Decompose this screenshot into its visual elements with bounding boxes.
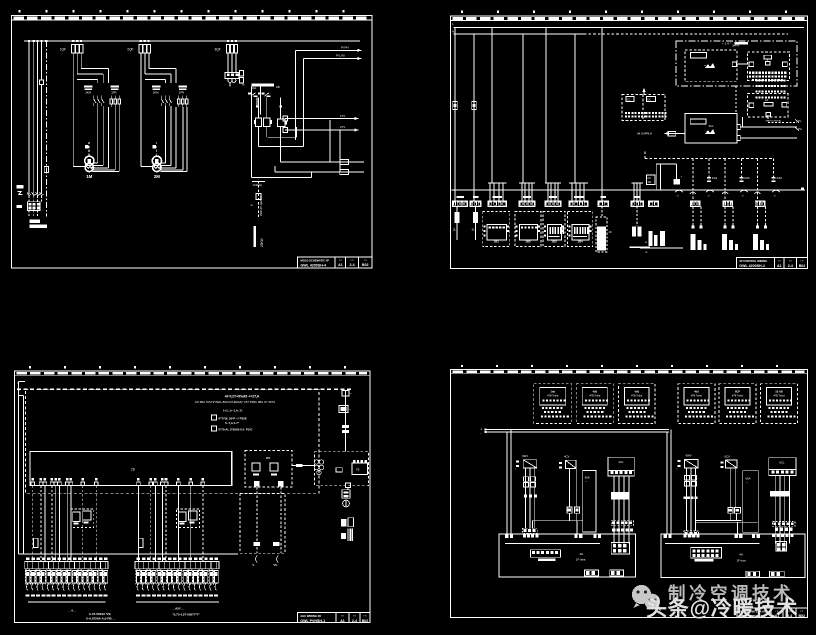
section top terminals right	[664, 535, 760, 538]
svg-text:-: -	[480, 432, 481, 436]
module 1B4 side pins	[568, 226, 591, 237]
svg-text:1B3: 1B3	[551, 239, 557, 243]
section box 4A enclosure	[499, 534, 636, 577]
relay unit 4dd notes	[626, 407, 654, 418]
svg-text:2-4: 2-4	[349, 263, 354, 267]
section label 4A	[576, 552, 586, 562]
controller module 3CL	[685, 114, 737, 143]
control group dashed boundary	[26, 389, 320, 493]
PE bond wire 2M	[153, 142, 157, 156]
IO module side pads	[749, 62, 787, 67]
meter id text vertical	[259, 196, 263, 216]
svg-text:TB: TB	[356, 468, 360, 472]
svg-text:SHUTDOWN AL: SHUTDOWN AL	[766, 120, 783, 123]
svg-text:1nb: 1nb	[550, 389, 555, 393]
svg-text:1B4: 1B4	[577, 239, 583, 243]
arrester label 2U	[16, 205, 22, 208]
contact branch KA4	[690, 159, 718, 199]
transducer sensor	[343, 500, 350, 507]
remote line PI PH	[296, 45, 362, 52]
svg-text:A1: A1	[777, 264, 782, 268]
terminal strip	[25, 562, 108, 569]
relay unit 6CP dashed box	[719, 384, 756, 424]
relay unit 4dd body	[582, 387, 608, 405]
feeder rating text	[260, 238, 264, 247]
svg-text:2A: 2A	[765, 98, 768, 102]
svg-text:3L1: 3L1	[472, 228, 477, 232]
field wiring note line2	[195, 400, 275, 404]
sheet 1 top margin strip	[12, 16, 373, 21]
module 1B2 side pins	[516, 226, 540, 237]
isolator 60A	[583, 470, 596, 532]
right section feed pair	[667, 430, 671, 534]
svg-text:#7B 7mbd: #7B 7mbd	[774, 395, 786, 398]
motor label 1M	[86, 174, 92, 179]
display window	[690, 53, 706, 59]
terminal block 2UH	[27, 202, 40, 211]
sensor chain coupler	[342, 425, 349, 433]
svg-text:#7B 7mbd: #7B 7mbd	[691, 395, 703, 398]
controller board 2D	[30, 452, 232, 486]
svg-text:#7B 7mbd: #7B 7mbd	[631, 395, 643, 398]
loop hooks	[252, 556, 278, 568]
control transformer TC	[225, 73, 239, 83]
svg-text:*: *	[351, 392, 352, 396]
aux contact box on line B	[340, 170, 349, 175]
PE bond wire 1M	[85, 142, 89, 156]
probe stack	[341, 518, 353, 541]
svg-text:w: w	[645, 241, 647, 244]
module 1B2 enclosure	[515, 211, 541, 246]
svg-text:N: N	[452, 29, 454, 33]
sheet 2 grid reference marks	[461, 11, 787, 13]
svg-text:1FR: 1FR	[111, 91, 116, 95]
fuse 2L below terminal	[453, 206, 460, 240]
terminal header 4CL	[608, 457, 634, 476]
svg-text:*: *	[681, 175, 682, 179]
connector grid 4A	[611, 542, 629, 554]
svg-text:#7B 7mbd: #7B 7mbd	[589, 395, 601, 398]
svg-text:3QF: 3QF	[215, 48, 221, 52]
svg-text:GWL 4200SH-4: GWL 4200SH-4	[301, 263, 327, 267]
svg-text:1KM: 1KM	[85, 91, 91, 95]
breaker 1QF	[60, 45, 83, 54]
relay pair 8B	[71, 509, 94, 528]
IO module chip	[764, 55, 772, 65]
meter tap tick	[252, 182, 265, 188]
neutral dashed wire	[17, 388, 352, 390]
interlock line 1YV	[283, 114, 359, 121]
device tag labels	[136, 595, 218, 597]
bus junction nodes	[28, 40, 237, 42]
supply bus A	[454, 27, 805, 29]
field device modules	[25, 569, 108, 584]
svg-text:1YV: 1YV	[340, 114, 345, 118]
motor feeder wires 1M	[73, 106, 119, 172]
enclosure label	[732, 42, 748, 48]
svg-text:1B2: 1B2	[525, 239, 531, 243]
svg-text:2D: 2D	[131, 468, 136, 472]
option checkbox 2	[211, 426, 252, 431]
6CL marker box	[770, 491, 790, 497]
display link wire	[732, 62, 748, 67]
4WV aux contacts	[524, 477, 538, 498]
wire hooks under rail	[675, 190, 780, 197]
control wires nest	[230, 50, 364, 177]
IO module box	[748, 52, 790, 81]
fuse 1FU panel3	[34, 538, 38, 547]
fuse 3L below terminal	[472, 206, 479, 240]
wire bundle 2QF to 2KM	[141, 53, 176, 167]
group underline left	[28, 601, 106, 603]
6WV terminal comb	[684, 531, 699, 536]
svg-text:1CZ(4x): 1CZ(4x)	[253, 183, 263, 187]
field wire hooks	[27, 583, 106, 591]
svg-text:4dd: 4dd	[592, 389, 597, 393]
relay coil 3KA	[277, 119, 287, 127]
relay unit 1S AB body	[767, 387, 793, 405]
comm module box TB	[314, 452, 368, 486]
module 1B1 side pins	[484, 226, 509, 237]
terminal strip	[135, 562, 219, 569]
module 1B3 body	[548, 225, 565, 244]
svg-text:60A: 60A	[746, 477, 751, 481]
fuse 1FU	[453, 102, 458, 110]
contact branch KA6	[754, 159, 782, 199]
node marker on wire 4	[40, 80, 44, 85]
feeder caption block	[30, 220, 47, 229]
contacts 1KM	[94, 96, 104, 107]
svg-text:2-4: 2-4	[352, 619, 357, 623]
interface box MB	[245, 451, 292, 488]
svg-text:GWL PVHSH-1: GWL PVHSH-1	[300, 619, 325, 623]
svg-text:**: **	[704, 64, 706, 68]
bus origin ticks	[452, 22, 454, 33]
relay unit 1S AB dashed box	[761, 384, 798, 424]
svg-text:B02: B02	[362, 619, 369, 623]
svg-text:2L: 2L	[453, 228, 457, 232]
module 1B3 enclosure	[543, 211, 565, 246]
svg-text:1B1: 1B1	[494, 239, 500, 243]
sheet 1 title block	[298, 257, 373, 268]
svg-text:1QF: 1QF	[60, 48, 66, 52]
pump load cluster	[640, 231, 683, 254]
svg-text:A1: A1	[340, 619, 345, 623]
arrester leads	[29, 196, 42, 202]
sheet 2 title block	[736, 258, 807, 269]
group underline right	[136, 601, 219, 603]
svg-text:A1: A1	[338, 263, 343, 267]
svg-text:1F-icva: 1F-icva	[737, 559, 747, 563]
svg-text:#7B 7mbd: #7B 7mbd	[547, 395, 559, 398]
contact branch KA5	[722, 159, 750, 199]
contactor 1KM	[84, 86, 93, 95]
svg-text:1+1,·1+·1,A,·1*,: 1+1,·1+·1,A,·1*,	[223, 408, 243, 412]
sheet 3 border frame	[15, 371, 371, 623]
svg-text:*0·: *0·	[252, 564, 255, 567]
supply feed wire	[664, 131, 685, 136]
svg-text:5··7,A,1·7*: 5··7,A,1·7*	[225, 421, 240, 425]
sheet 1 border frame	[12, 16, 373, 269]
svg-text:B02: B02	[798, 614, 805, 618]
svg-text:*: *	[350, 408, 351, 412]
wires 3QF to transformer	[228, 53, 236, 72]
feeder rating bar	[254, 226, 257, 247]
module 1B4 enclosure	[568, 211, 593, 246]
sensor chain device	[339, 406, 351, 413]
sensor loop wire B	[273, 481, 284, 553]
svg-text:ZKW-4Y-1(220V): ZKW-4Y-1(220V)	[259, 196, 263, 216]
svg-text:MOLD SCHEMATIC 4P: MOLD SCHEMATIC 4P	[301, 258, 330, 262]
svg-text:4A: 4A	[580, 552, 584, 556]
svg-text:*0M: *0M	[273, 564, 277, 567]
keypad glyph	[704, 63, 715, 68]
load of KA5	[722, 206, 738, 250]
svg-text:CC: CC	[627, 98, 631, 101]
module 1B4 body	[572, 225, 589, 244]
bottom fittings 4A	[585, 570, 624, 576]
node marker on neutral	[44, 167, 48, 173]
relay unit 4dd notes	[685, 407, 713, 418]
supply feed label	[637, 132, 652, 136]
svg-text:4dd: 4dd	[634, 389, 639, 393]
aux contact box on line A	[340, 160, 349, 165]
svg-text:25KW: 25KW	[260, 238, 264, 247]
svg-text:0*70·AL 5*5555·0 5· P5·E: 0*70·AL 5*5555·0 5· P5·E	[219, 427, 253, 431]
isolator 60A right	[743, 471, 758, 533]
sheet 4 top margin strip	[451, 370, 808, 374]
feeder wires to 2UH	[29, 41, 38, 194]
shutdown signal dashed	[766, 117, 798, 123]
option checkbox 1	[211, 415, 247, 420]
svg-text:3# SUPPLH: 3# SUPPLH	[637, 132, 652, 136]
4WV terminal comb	[523, 528, 538, 533]
svg-text:3CL: 3CL	[709, 124, 715, 128]
module output wire PL	[737, 119, 802, 130]
section label 6A	[737, 553, 747, 563]
relay unit 6CP body	[725, 387, 751, 405]
relay unit 1nb dashed box	[534, 384, 572, 424]
svg-text:1SA: 1SA	[251, 86, 256, 90]
svg-text:*5,70 4,27·05077*7*: *5,70 4,27·05077*7*	[172, 612, 200, 616]
svg-text:DC: DC	[648, 98, 652, 101]
arrester glyphs	[18, 191, 44, 195]
svg-text:*: *	[586, 481, 587, 484]
overload element 1FR	[110, 96, 121, 108]
4CL wires down	[614, 476, 629, 544]
supply labels L N	[18, 381, 20, 392]
motor feeder wires 2M	[141, 106, 187, 172]
svg-text:6CV: 6CV	[725, 454, 731, 458]
valve actuator 4WV	[515, 454, 537, 472]
DC supply terminals	[480, 428, 486, 436]
field device modules	[136, 569, 219, 584]
option note B	[225, 421, 240, 425]
relay unit 1S AB notes	[768, 407, 796, 418]
svg-text:KA5: KA5	[744, 176, 750, 180]
device tag labels	[26, 595, 108, 597]
svg-text:A·07·5204A *20,: A·07·5204A *20,	[89, 612, 112, 616]
MB link wire	[292, 464, 315, 467]
terminal strip inside 4A	[530, 550, 560, 561]
display module box	[685, 50, 737, 82]
svg-text:AO 98A 7CM 9*29AL 89CX(7H09A: AO 98A 7CM 9*29AL 89CX(7H09A4)* 257 P99C…	[195, 400, 275, 404]
contacts 2KM	[161, 96, 171, 107]
relay coil 3KM	[254, 118, 262, 126]
expansion module box	[748, 94, 788, 118]
load of KA4	[691, 206, 707, 250]
sheet 3 grid reference marks	[29, 366, 346, 368]
svg-text:__A5Y__: __A5Y__	[171, 606, 185, 610]
terminal rail	[452, 188, 806, 191]
module 1B1 enclosure	[483, 211, 510, 246]
relay unit 6CP notes	[726, 407, 754, 418]
6CL wires down	[775, 476, 789, 544]
power bus L1	[24, 40, 360, 42]
svg-text:w: w	[645, 251, 647, 254]
surge arrester 3UH label	[16, 185, 23, 188]
svg-text:#7B 7mbd: #7B 7mbd	[732, 395, 744, 398]
svg-text:GWL 4200SH-4: GWL 4200SH-4	[739, 264, 765, 268]
relay unit 1nb notes	[541, 407, 569, 418]
section box 6A enclosure	[661, 534, 805, 578]
svg-text:PI PH: PI PH	[341, 45, 349, 49]
module 1B1 body	[487, 225, 506, 244]
relay pair 8B	[177, 509, 200, 528]
sensor group box CC DD	[622, 94, 667, 120]
panel enclosure outline	[676, 41, 797, 86]
motor 2M	[152, 156, 161, 171]
thermal relay 2FR	[178, 86, 187, 95]
valve actuator 6CV	[721, 454, 737, 468]
svg-text:1M: 1M	[86, 174, 92, 179]
terminal id labels	[456, 196, 640, 198]
group caption right	[171, 606, 201, 616]
svg-text:AHU WIRING 2D: AHU WIRING 2D	[300, 614, 321, 618]
load of KA6	[753, 206, 769, 250]
svg-text:*: *	[677, 469, 678, 472]
field wiring note line1	[225, 394, 260, 398]
relay coil 3KT	[263, 118, 272, 126]
module 1B3 side pins	[544, 226, 564, 237]
strip tag row	[137, 558, 218, 560]
control bus 220V	[251, 84, 280, 90]
svg-text:0-A,0720A·A,0·PB·__: 0-A,0720A·A,0·PB·__	[86, 617, 116, 621]
overload element 2FR	[178, 96, 189, 108]
strip tag row	[26, 558, 107, 560]
phase wire branch	[19, 396, 24, 554]
group caption left	[67, 608, 116, 620]
sheet 3 top margin strip	[15, 371, 371, 375]
sheet 4 title block	[737, 608, 808, 619]
relay unit 1nb body	[540, 387, 566, 405]
svg-text:1S AB: 1S AB	[775, 389, 783, 393]
pump unit 3M	[647, 164, 683, 190]
6WV wires down	[687, 468, 696, 531]
fuse 2FU panel3	[139, 538, 143, 547]
svg-text:0*T/*0L 55*P +* P55E: 0*T/*0L 55*P +* P55E	[219, 416, 247, 420]
svg-text:MB: MB	[266, 456, 271, 460]
svg-text:3M: 3M	[648, 181, 651, 184]
relay unit 4dd notes	[583, 407, 611, 418]
hanging bus dashed	[645, 150, 774, 159]
svg-text:2KM: 2KM	[153, 91, 159, 95]
module 1B2 body	[519, 225, 537, 244]
svg-text:6WV: 6WV	[686, 454, 692, 458]
control fuse 4FU	[240, 71, 245, 87]
4CL lower combs	[611, 521, 633, 532]
controller terminals	[31, 478, 205, 486]
terminal header 6CL	[769, 458, 796, 476]
sheet 1 grid reference marks	[19, 10, 345, 12]
6CL lower combs	[772, 522, 795, 538]
relay unit 4dd dashed box	[576, 384, 613, 424]
svg-text:6CP: 6CP	[735, 389, 740, 393]
watermark text lower	[646, 597, 798, 621]
svg-text:KA6: KA6	[777, 176, 783, 180]
svg-text:*w: *w	[242, 83, 245, 87]
svg-text:B02: B02	[799, 264, 806, 268]
4WV wires down	[526, 468, 535, 528]
breaker 3QF	[215, 45, 238, 54]
contactor column 1KM6	[596, 206, 612, 252]
sensor arrow	[642, 88, 646, 94]
sensor chain wire upper	[342, 391, 352, 452]
svg-text:1F-alva: 1F-alva	[576, 558, 586, 562]
neutral dash-dot wire	[45, 41, 47, 217]
svg-text:*: *	[515, 469, 516, 472]
svg-text:+·1·0·*: +·1·0·*	[722, 41, 732, 45]
4CL marker box	[611, 492, 629, 500]
fuse 2FU	[472, 102, 477, 110]
terminal strip boxes	[453, 201, 766, 207]
enclosure link to controller	[735, 86, 737, 114]
svg-text:KA4: KA4	[712, 176, 718, 180]
sheet 4 grid reference marks	[461, 365, 778, 367]
expansion side pads	[749, 102, 787, 107]
remote line PI LA	[303, 54, 361, 61]
distribution drop wires	[455, 28, 602, 184]
svg-text:B02: B02	[362, 263, 369, 267]
valve actuator 4CV	[559, 454, 576, 468]
svg-text:4P CONTROL WIRING: 4P CONTROL WIRING	[739, 259, 767, 263]
transducer below TB	[346, 483, 351, 490]
link wire vertical	[742, 117, 744, 127]
motor 1M	[85, 156, 94, 171]
feeder wire 4	[41, 41, 43, 194]
option note A	[223, 408, 243, 412]
svg-text:__4__: __4__	[67, 608, 77, 612]
bottom fittings 6A	[746, 571, 784, 577]
connector grid 6A	[776, 542, 787, 552]
transducer body	[342, 490, 350, 499]
relay unit 4dd dashed box	[619, 384, 656, 424]
interlock line 2YV	[283, 125, 359, 132]
terminal stub wires	[455, 183, 643, 201]
svg-text:AB: AB	[276, 85, 280, 89]
svg-text:2-4: 2-4	[788, 264, 793, 268]
breaker 2QF	[127, 45, 150, 54]
current transformer symbol	[251, 194, 262, 208]
svg-text:4WV: 4WV	[522, 454, 528, 458]
terminal strip inside 6A	[691, 548, 722, 562]
watermark text upper	[668, 584, 794, 604]
svg-text:2YV: 2YV	[340, 125, 345, 129]
6CV wires	[696, 468, 758, 534]
expansion chip	[764, 98, 773, 116]
svg-text:*: *	[747, 482, 748, 485]
field wire hooks	[137, 583, 216, 591]
